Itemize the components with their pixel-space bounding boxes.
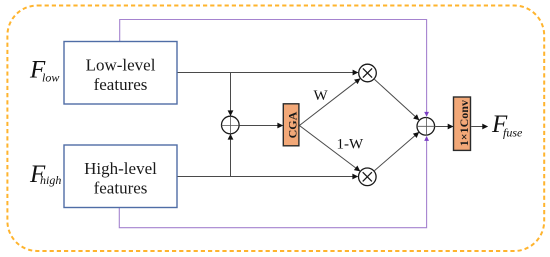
svg-text:CGA: CGA — [285, 111, 299, 138]
svg-text:high: high — [40, 173, 61, 187]
svg-text:fuse: fuse — [503, 126, 523, 140]
svg-text:1-W: 1-W — [337, 137, 364, 153]
svg-text:1×1Conv: 1×1Conv — [457, 100, 471, 146]
svg-text:High-level: High-level — [84, 159, 157, 178]
svg-text:features: features — [94, 179, 148, 198]
svg-text:low: low — [42, 71, 59, 85]
svg-text:W: W — [314, 88, 329, 104]
svg-text:Low-level: Low-level — [86, 56, 156, 75]
svg-text:features: features — [94, 75, 148, 94]
